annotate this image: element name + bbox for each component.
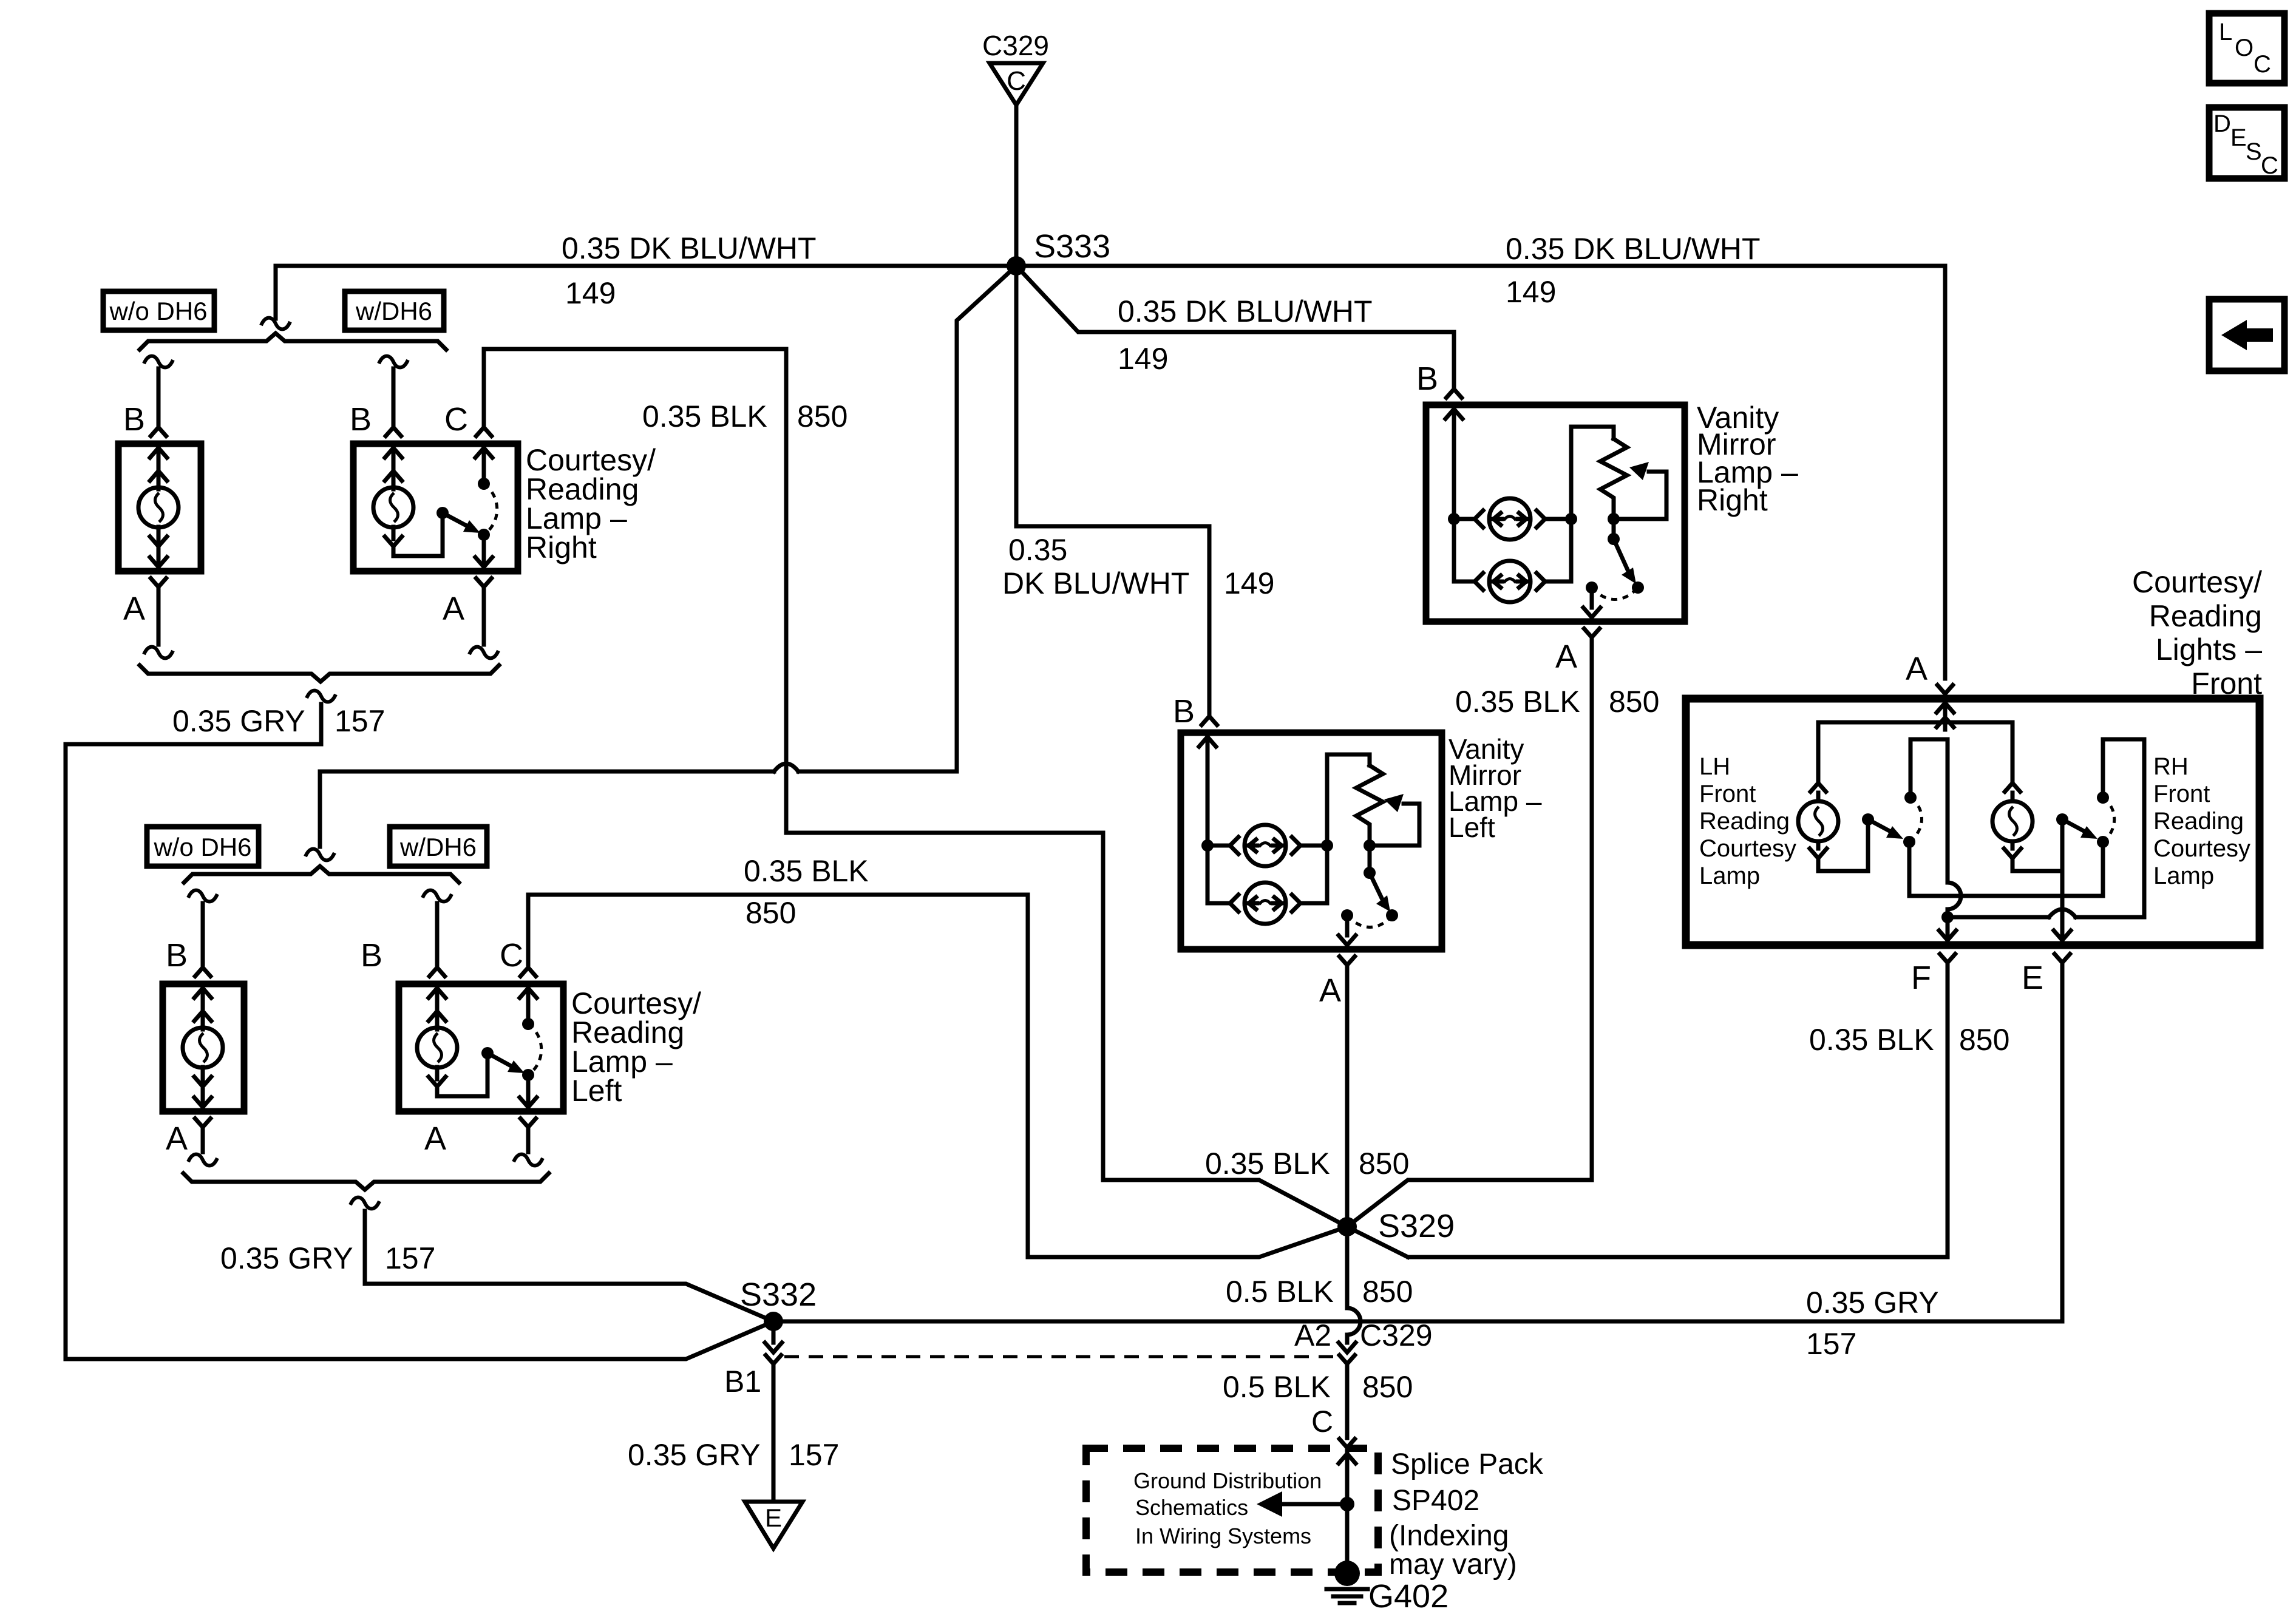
svg-text:C: C — [1311, 1405, 1333, 1439]
svg-text:C329: C329 — [1360, 1318, 1433, 1352]
svg-text:0.35 GRY: 0.35 GRY — [1806, 1286, 1939, 1320]
svg-text:149: 149 — [1224, 566, 1274, 600]
svg-text:Courtesy/: Courtesy/ — [2132, 565, 2262, 599]
svg-text:850: 850 — [1362, 1275, 1413, 1309]
svg-text:C329: C329 — [982, 30, 1049, 61]
svg-text:L: L — [2219, 19, 2232, 46]
svg-text:LH: LH — [1699, 753, 1730, 780]
svg-text:850: 850 — [1362, 1370, 1413, 1404]
svg-text:850: 850 — [1959, 1023, 2009, 1057]
svg-text:S332: S332 — [740, 1276, 817, 1313]
svg-text:B: B — [350, 401, 372, 438]
svg-text:w/o DH6: w/o DH6 — [109, 297, 207, 325]
svg-text:D: D — [2213, 110, 2231, 137]
svg-text:A: A — [424, 1120, 446, 1157]
svg-text:Right: Right — [1697, 483, 1768, 517]
svg-text:B: B — [361, 937, 382, 974]
svg-text:850: 850 — [797, 399, 847, 433]
svg-text:Front: Front — [2153, 781, 2210, 807]
svg-text:(Indexing: (Indexing — [1389, 1520, 1509, 1552]
svg-text:Lamp: Lamp — [1699, 863, 1760, 889]
svg-text:may vary): may vary) — [1389, 1548, 1517, 1581]
svg-text:149: 149 — [1118, 342, 1168, 376]
svg-text:DK BLU/WHT: DK BLU/WHT — [1002, 566, 1189, 600]
svg-text:E: E — [2230, 124, 2247, 151]
svg-text:Courtesy: Courtesy — [2153, 835, 2250, 862]
svg-text:149: 149 — [1506, 275, 1556, 309]
svg-text:0.5 BLK: 0.5 BLK — [1226, 1275, 1334, 1309]
svg-text:w/o DH6: w/o DH6 — [153, 833, 251, 861]
svg-text:B: B — [1173, 693, 1195, 730]
svg-text:0.35 BLK: 0.35 BLK — [1205, 1147, 1330, 1181]
svg-text:0.35 BLK: 0.35 BLK — [642, 399, 767, 433]
svg-text:Lamp: Lamp — [2153, 863, 2214, 889]
svg-text:A: A — [443, 591, 464, 627]
svg-text:Lights –: Lights – — [2156, 632, 2262, 666]
svg-text:Reading: Reading — [2149, 599, 2262, 633]
svg-text:Left: Left — [571, 1074, 622, 1108]
svg-text:850: 850 — [1359, 1147, 1409, 1181]
svg-text:B: B — [166, 937, 188, 974]
svg-text:0.35 GRY: 0.35 GRY — [628, 1438, 761, 1472]
svg-text:850: 850 — [1609, 685, 1659, 719]
svg-text:SP402: SP402 — [1392, 1485, 1479, 1517]
svg-text:Ground Distribution: Ground Distribution — [1133, 1468, 1322, 1493]
svg-text:0.35 BLK: 0.35 BLK — [1455, 685, 1580, 719]
svg-text:Front: Front — [1699, 781, 1756, 807]
svg-text:A: A — [166, 1120, 188, 1157]
svg-text:A: A — [1906, 651, 1927, 687]
svg-text:Reading: Reading — [1699, 808, 1790, 835]
svg-text:B1: B1 — [724, 1364, 761, 1398]
svg-text:0.35 GRY: 0.35 GRY — [220, 1241, 353, 1275]
svg-text:w/DH6: w/DH6 — [399, 833, 477, 861]
svg-text:149: 149 — [565, 276, 616, 310]
svg-text:E: E — [765, 1503, 782, 1532]
svg-text:A2: A2 — [1294, 1318, 1331, 1352]
svg-text:In Wiring Systems: In Wiring Systems — [1135, 1524, 1311, 1548]
svg-text:S: S — [2246, 138, 2262, 165]
svg-text:C: C — [2254, 51, 2271, 78]
svg-text:0.5 BLK: 0.5 BLK — [1223, 1370, 1331, 1404]
svg-text:Reading: Reading — [2153, 808, 2244, 835]
svg-text:0.35 BLK: 0.35 BLK — [1809, 1023, 1934, 1057]
svg-text:C: C — [500, 937, 523, 974]
svg-text:A: A — [1319, 972, 1341, 1009]
svg-text:E: E — [2022, 960, 2043, 996]
svg-text:S333: S333 — [1034, 228, 1110, 265]
svg-text:0.35 BLK: 0.35 BLK — [744, 854, 869, 888]
svg-text:Left: Left — [1449, 812, 1495, 843]
svg-text:B: B — [123, 401, 145, 438]
svg-text:S329: S329 — [1378, 1208, 1455, 1244]
svg-text:F: F — [1911, 960, 1931, 996]
svg-text:A: A — [123, 591, 145, 627]
svg-text:B: B — [1416, 361, 1438, 397]
svg-text:157: 157 — [385, 1241, 435, 1275]
svg-text:0.35 GRY: 0.35 GRY — [172, 704, 305, 738]
svg-text:Courtesy: Courtesy — [1699, 835, 1796, 862]
svg-text:C: C — [2261, 152, 2278, 179]
svg-text:0.35 DK BLU/WHT: 0.35 DK BLU/WHT — [562, 231, 817, 265]
svg-text:157: 157 — [1806, 1327, 1856, 1361]
svg-text:0.35 DK BLU/WHT: 0.35 DK BLU/WHT — [1118, 294, 1373, 328]
svg-text:0.35: 0.35 — [1008, 533, 1067, 567]
svg-text:Schematics: Schematics — [1135, 1495, 1248, 1520]
svg-text:Splice Pack: Splice Pack — [1391, 1448, 1544, 1480]
svg-text:C: C — [1007, 66, 1026, 96]
svg-text:w/DH6: w/DH6 — [355, 297, 432, 325]
svg-text:C: C — [444, 401, 468, 438]
svg-text:A: A — [1555, 639, 1577, 675]
svg-text:0.35 DK BLU/WHT: 0.35 DK BLU/WHT — [1506, 232, 1761, 266]
svg-text:Right: Right — [526, 531, 597, 564]
svg-text:G402: G402 — [1368, 1578, 1449, 1615]
svg-text:157: 157 — [789, 1438, 839, 1472]
svg-text:850: 850 — [746, 896, 796, 930]
svg-text:157: 157 — [335, 704, 385, 738]
svg-text:O: O — [2235, 35, 2254, 61]
svg-text:RH: RH — [2153, 753, 2189, 780]
